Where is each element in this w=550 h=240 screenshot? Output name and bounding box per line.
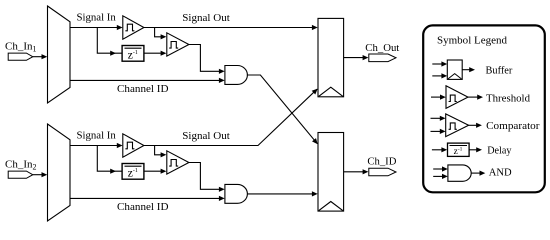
wire: branch to delay (bottom) [97,146,122,174]
label Comparator [486,120,540,132]
svg-text:Comparator: Comparator [486,120,540,132]
label Ch_In2 [5,159,37,172]
label Ch_In1 [5,41,37,54]
label Ch_ID [367,155,396,167]
label Signal Out (bottom) [182,130,230,142]
svg-text:Ch_In2: Ch_In2 [5,159,37,172]
wire: Channel ID (top) [70,78,225,83]
wire: top buffer to Ch_Out port [344,55,369,60]
legend comparator symbol [431,114,482,137]
svg-text:Symbol Legend: Symbol Legend [437,35,507,47]
wire: comparator out to AND (top) [189,45,225,74]
wire: Signal Out (bottom), diagonal up to top buffer [144,89,318,146]
wire: delay out to comparator (top) [144,51,167,56]
label Channel ID (bottom) [117,201,169,213]
svg-text:Threshold: Threshold [486,92,530,104]
label Signal Out (top) [182,12,230,24]
svg-text:AND: AND [489,167,512,179]
label Symbol Legend [437,35,507,47]
delay block z-1 (top) [122,46,144,62]
comparator block (bottom) [167,151,189,174]
label Buffer [486,65,513,77]
wire: threshold out to comparator (top) [155,28,167,40]
legend box [423,25,545,192]
inport Ch_In2 (bottom) [8,171,33,178]
wire: bottom buffer to Ch_ID port [344,169,369,174]
delay block z-1 (bottom) [122,164,144,180]
wire: threshold out to comparator (bottom) [155,146,167,158]
selector block (top) [48,6,71,103]
svg-text:Signal Out: Signal Out [182,130,230,142]
wire: Ch_In1 to selector [33,54,48,59]
AND gate (top) [225,66,248,85]
svg-text:Channel ID: Channel ID [117,201,169,213]
AND gate (bottom) [225,184,247,203]
buffer latch (top) [318,18,344,96]
threshold block (bottom) [123,134,144,157]
wire: Signal In (bottom) [70,143,123,148]
label Ch_Out [365,42,399,54]
svg-text:Signal In: Signal In [77,12,117,24]
label Channel ID (top) [117,83,169,95]
label Threshold [486,92,530,104]
legend buffer symbol [432,60,475,79]
threshold block (top) [123,16,144,39]
legend AND symbol [433,165,485,181]
svg-text:Signal In: Signal In [77,130,117,142]
svg-text:Ch_Out: Ch_Out [365,42,399,54]
wire: Channel ID (bottom) [70,196,225,201]
legend threshold symbol [431,86,483,109]
label Signal In (top) [77,12,117,24]
wire: bottom AND out to bottom buffer [247,191,318,196]
svg-text:Ch_In1: Ch_In1 [5,41,37,54]
wire: Signal Out (top) to top buffer [144,25,318,30]
outport Ch_ID [369,168,396,176]
wire: Ch_In2 to selector [33,172,48,177]
label Signal In (bottom) [77,130,117,142]
wire: top AND out, diagonal down to bottom buffer [247,75,318,144]
wire: delay out to comparator (bottom) [144,169,167,174]
selector block (bottom) [48,124,71,221]
svg-text:Delay: Delay [487,145,512,157]
outport Ch_Out [369,54,396,62]
wire: Signal In (top) [70,25,123,30]
svg-text:Channel ID: Channel ID [117,83,169,95]
svg-text:Signal Out: Signal Out [182,12,230,24]
inport Ch_In1 (top) [8,53,33,60]
svg-text:Ch_ID: Ch_ID [367,155,396,167]
comparator block (top) [167,33,189,56]
wire: comparator out to AND (bottom) [189,163,225,192]
wire: branch to delay (top) [97,28,122,56]
label AND [489,167,512,179]
legend delay symbol [432,143,482,157]
svg-text:Buffer: Buffer [486,65,513,77]
buffer latch (bottom) [318,133,344,212]
label Delay [487,145,512,157]
